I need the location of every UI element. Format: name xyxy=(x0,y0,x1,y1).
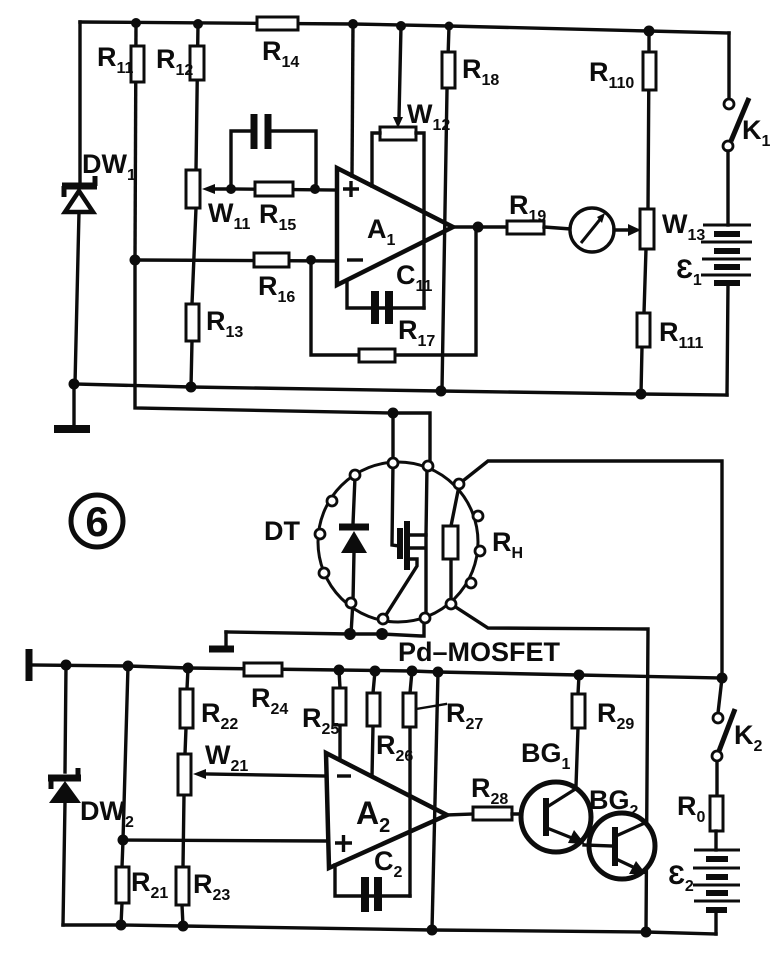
resistor R27 xyxy=(403,693,416,727)
wire right column to K1 xyxy=(727,33,730,99)
ground tick xyxy=(209,632,234,649)
node bottom R23 xyxy=(178,921,189,932)
capacitor over R15 xyxy=(231,114,316,189)
node bus DW2 xyxy=(61,660,72,671)
wire diode branch xyxy=(351,477,355,634)
ground xyxy=(54,384,90,429)
resistor R12 xyxy=(190,46,204,80)
node bottom R21 xyxy=(116,920,127,931)
wire RH bottom to BG2 collector column xyxy=(451,604,648,931)
wire R29 column xyxy=(576,675,579,786)
node mid bus ground xyxy=(69,379,80,390)
resistor R16 xyxy=(254,253,289,267)
potentiometer W12 xyxy=(372,127,424,308)
node source bottom xyxy=(376,628,388,640)
node inverting input xyxy=(306,255,316,265)
wire R19 to meter xyxy=(544,227,571,229)
mosfet substrate lead xyxy=(410,535,426,618)
wire bus to A1 top edge xyxy=(352,24,353,176)
wire RH top to right column xyxy=(459,461,722,678)
wire R21 column xyxy=(121,666,128,925)
resistor R13 xyxy=(186,304,199,341)
mosfet source lead xyxy=(384,559,417,618)
node bus R27 xyxy=(407,666,418,677)
zener DW2 xyxy=(48,768,81,803)
pin circles on DT xyxy=(315,458,485,624)
node bus R22 xyxy=(183,663,194,674)
resistor RH xyxy=(443,526,458,559)
battery E1 xyxy=(701,225,752,283)
potentiometer W11 xyxy=(186,170,231,208)
node bus2 gate xyxy=(388,408,399,419)
op-amp A1 xyxy=(337,168,453,285)
wire source ground bus xyxy=(226,618,424,636)
resistor R18 xyxy=(442,52,455,88)
node mid bus R111 xyxy=(636,389,647,400)
node bottom column4 xyxy=(427,925,438,936)
resistor R110 xyxy=(643,52,656,90)
wire mid bus xyxy=(74,384,727,395)
resistor R111 xyxy=(637,313,650,347)
node bus R18 xyxy=(445,22,454,31)
node bus right column xyxy=(717,673,728,684)
node R15 right xyxy=(310,184,320,194)
wire meter to W13 arrow xyxy=(614,224,641,236)
resistor R25 xyxy=(333,688,346,725)
node bus column4 xyxy=(433,667,444,678)
resistor R24 xyxy=(244,663,282,676)
node output xyxy=(473,222,484,233)
wire noninverting input xyxy=(123,840,326,841)
svg-text:6: 6 xyxy=(85,498,108,545)
MIDSECTION xyxy=(71,408,722,932)
node bus R21 xyxy=(123,661,134,672)
wire W12 wiper from bus xyxy=(393,26,403,128)
resistor R14 xyxy=(257,17,298,30)
resistor R15 xyxy=(231,182,337,196)
node bus R25 xyxy=(334,665,345,676)
wire inverting input xyxy=(135,260,337,261)
resistor R28 xyxy=(473,807,512,820)
wire R25 column xyxy=(339,670,340,761)
wire battery to mid bus xyxy=(727,284,728,395)
wire R28 to BG1 base xyxy=(512,812,543,815)
meter xyxy=(570,208,614,252)
wire bottom bus xyxy=(63,925,716,934)
wire drain feed from bus2 xyxy=(393,413,430,466)
resistor R26 xyxy=(367,693,380,726)
zener DW1 xyxy=(62,176,97,212)
node bus R26 xyxy=(370,666,381,677)
mosfet gate bar xyxy=(397,528,403,559)
resistor R19 xyxy=(507,221,544,234)
sensor circle DT xyxy=(318,462,478,622)
op-amp A2 xyxy=(326,753,447,868)
wire R12 W11 R13 column xyxy=(191,24,198,387)
node diode bottom xyxy=(344,628,356,640)
wire top bus xyxy=(80,22,729,33)
wire R11 down to bus2 xyxy=(135,260,393,413)
wire DW1 column upper xyxy=(78,22,81,185)
wire R18 column xyxy=(442,26,449,390)
node R11 R16 junction xyxy=(130,255,141,266)
transistor BG1 xyxy=(521,782,591,852)
wire R0 to battery xyxy=(714,831,717,850)
mosfet channel bar xyxy=(404,521,410,570)
node mid bus R13 xyxy=(186,382,197,393)
wire R27 column through A2 xyxy=(410,671,412,896)
wire R110 W13 R111 column xyxy=(641,31,649,394)
node bus W12 xyxy=(396,21,406,31)
resistor R21 xyxy=(116,867,129,903)
wire column4 xyxy=(432,672,438,930)
wire A1 output xyxy=(453,225,507,228)
resistor R23 xyxy=(176,867,189,905)
wire R26 column xyxy=(372,671,375,777)
wire battery to bottom bus xyxy=(714,910,717,934)
svg-text:DT: DT xyxy=(264,516,300,546)
svg-text:Pd–MOSFET: Pd–MOSFET xyxy=(398,637,561,667)
node noninverting tap xyxy=(118,835,129,846)
node bus A1 xyxy=(348,19,358,29)
battery E2 xyxy=(693,850,740,910)
mosfet drain lead xyxy=(410,466,427,535)
mosfet gate lead xyxy=(392,463,399,546)
capacitor C2 xyxy=(335,865,410,912)
potentiometer W21 xyxy=(178,754,326,795)
switch K2 xyxy=(712,709,735,761)
feedback loop R17 xyxy=(311,227,476,355)
TOPCIRCUIT xyxy=(54,17,771,429)
potentiometer W13 xyxy=(640,209,654,249)
transistor BG2 xyxy=(584,813,655,879)
resistor RH leads xyxy=(451,486,459,603)
wire A2 output xyxy=(447,814,473,815)
wire supply bus xyxy=(29,665,722,678)
node W11 wiper xyxy=(226,184,236,194)
wire R22 W21 R23 column xyxy=(182,668,188,926)
wire R11 column xyxy=(135,23,136,260)
capacitor C11 xyxy=(347,281,424,324)
terminal left xyxy=(26,649,33,681)
node bus R110 xyxy=(644,26,655,37)
wire K2 column xyxy=(717,678,722,796)
wire K1 to battery xyxy=(726,151,729,225)
node bus R29 xyxy=(574,670,585,681)
node mid bus R18 xyxy=(436,386,447,397)
diode inside DT xyxy=(339,527,369,553)
resistor R11 xyxy=(131,46,144,82)
node bus R12 xyxy=(193,19,203,29)
resistor R29 xyxy=(572,694,585,728)
node bottom BG2 xyxy=(641,927,652,938)
resistor R0 xyxy=(710,796,723,831)
BOTTOMCIRCUIT xyxy=(29,649,763,938)
wire DW1 column lower xyxy=(75,212,79,384)
node bus R11 xyxy=(131,18,141,28)
wire gate feed down from bus2 xyxy=(391,413,394,463)
pointer R27 label xyxy=(416,704,446,709)
switch K1 xyxy=(723,98,749,151)
resistor R17 xyxy=(359,349,395,362)
resistor R22 xyxy=(180,689,193,728)
wire DW2 column xyxy=(63,665,66,925)
symbol circled 6 xyxy=(71,495,123,547)
